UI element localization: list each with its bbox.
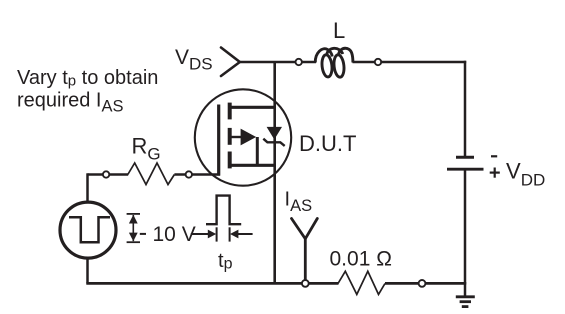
- MOSFET body lead with arrow: [230, 136, 242, 138]
- wire: drain vertical from top wire down to source node on bottom wire: [273, 62, 276, 284]
- svg-text:Vary tp to obtain: Vary tp to obtain: [17, 67, 158, 90]
- node: RG right open terminal: [186, 171, 192, 177]
- VDS probe arrow: [221, 48, 240, 77]
- MOSFET channel middle segment: [228, 128, 232, 145]
- wire: bottom rail from pulse generator to shunt node: [86, 282, 302, 285]
- wire: pulse generator bottom stub to bottom wire: [86, 258, 89, 284]
- MOSFET gate bar: [217, 105, 220, 176]
- body diode (zener) cathode bar with bent ends: [263, 139, 284, 146]
- wire: RG body to right terminal: [174, 173, 185, 176]
- wire: inductor to right terminal: [353, 61, 375, 64]
- wire: resistor to right open terminal: [385, 282, 419, 285]
- wire: terminal to bottom-right corner / ground: [425, 282, 466, 285]
- node: shunt left open terminal: [302, 280, 309, 287]
- MOSFET channel top segment: [228, 103, 232, 120]
- svg-text:L: L: [333, 18, 345, 43]
- inductor L: [315, 48, 353, 77]
- MOSFET drain connection (top): [230, 106, 275, 109]
- wire: RG terminal to MOSFET gate: [192, 173, 220, 176]
- battery VDD negative plate (short bar, top): [456, 156, 474, 159]
- tp left dimension arrow: [191, 227, 217, 241]
- resistor RG zigzag: [128, 163, 175, 185]
- wire: terminal to inductor: [302, 61, 316, 64]
- wire: right vertical down to battery negative plate: [464, 61, 467, 157]
- battery minus sign: [491, 155, 497, 157]
- MOSFET D.U.T envelope circle: [195, 89, 291, 185]
- IAS current arrow (open arrowhead with shaft to shunt node): [292, 219, 318, 281]
- wire: gate lead from pulse source corner to RG: [88, 173, 104, 176]
- pulse generator waveform (negative pulse): [69, 217, 110, 242]
- battery plus sign: [490, 168, 500, 178]
- node: shunt right open terminal: [419, 280, 426, 287]
- 10 V amplitude dimension arrow: [127, 214, 146, 242]
- wire: shunt node to 0.01 ohm resistor: [309, 282, 339, 285]
- tp right dimension arrow: [230, 227, 253, 241]
- node: inductor right open terminal: [375, 59, 381, 65]
- resistor 0.01 ohm zigzag: [338, 271, 385, 294]
- MOSFET channel bottom segment: [228, 152, 232, 169]
- wire: ground stub below bottom wire: [464, 283, 467, 297]
- body diode (zener) triangle: [267, 127, 282, 140]
- battery VDD positive plate (long bar, bottom): [447, 168, 484, 171]
- tp gate pulse waveform: [206, 196, 241, 225]
- svg-text:0.01 Ω: 0.01 Ω: [330, 248, 392, 271]
- MOSFET source connection (bottom): [230, 164, 275, 167]
- node: inductor left open terminal: [296, 59, 302, 65]
- node: RG left open terminal: [103, 171, 109, 177]
- svg-text:D.U.T: D.U.T: [299, 131, 356, 156]
- svg-text:10 V: 10 V: [153, 223, 196, 246]
- wire: terminal to RG body: [109, 173, 128, 176]
- ground symbol: [456, 297, 475, 307]
- pulse generator circle: [60, 202, 116, 258]
- wire: VDS node to inductor left terminal: [239, 61, 296, 64]
- wire: pulse generator top stub: [86, 173, 89, 203]
- wire: battery positive to bottom-right corner: [464, 171, 467, 284]
- label: Vary tp to obtain required IAS: [17, 67, 158, 116]
- wire: inductor terminal to top-right corner: [381, 61, 466, 64]
